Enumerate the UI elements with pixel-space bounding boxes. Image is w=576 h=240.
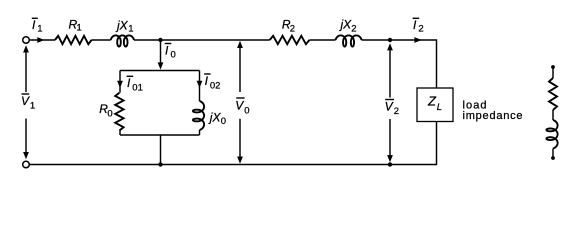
svg-text:V: V xyxy=(21,94,30,108)
svg-text:jX: jX xyxy=(115,19,129,33)
svg-text:L: L xyxy=(437,102,442,113)
svg-text:1: 1 xyxy=(128,23,133,34)
svg-text:Z: Z xyxy=(427,93,437,108)
svg-text:0: 0 xyxy=(107,109,112,120)
svg-text:jX: jX xyxy=(339,18,353,32)
svg-text:V: V xyxy=(385,100,394,114)
svg-text:2: 2 xyxy=(290,24,295,35)
svg-text:impedance: impedance xyxy=(463,110,523,122)
svg-text:jX: jX xyxy=(208,110,222,124)
svg-text:0: 0 xyxy=(244,105,249,116)
svg-text:02: 02 xyxy=(210,80,221,91)
svg-text:2: 2 xyxy=(351,24,356,35)
svg-text:0: 0 xyxy=(221,116,226,127)
svg-text:1: 1 xyxy=(30,101,35,112)
svg-text:1: 1 xyxy=(77,23,82,34)
svg-text:1: 1 xyxy=(37,23,42,34)
svg-text:2: 2 xyxy=(418,24,423,35)
svg-text:V: V xyxy=(235,99,244,113)
svg-text:2: 2 xyxy=(394,106,399,117)
svg-text:0: 0 xyxy=(171,50,176,61)
svg-text:01: 01 xyxy=(132,82,143,93)
